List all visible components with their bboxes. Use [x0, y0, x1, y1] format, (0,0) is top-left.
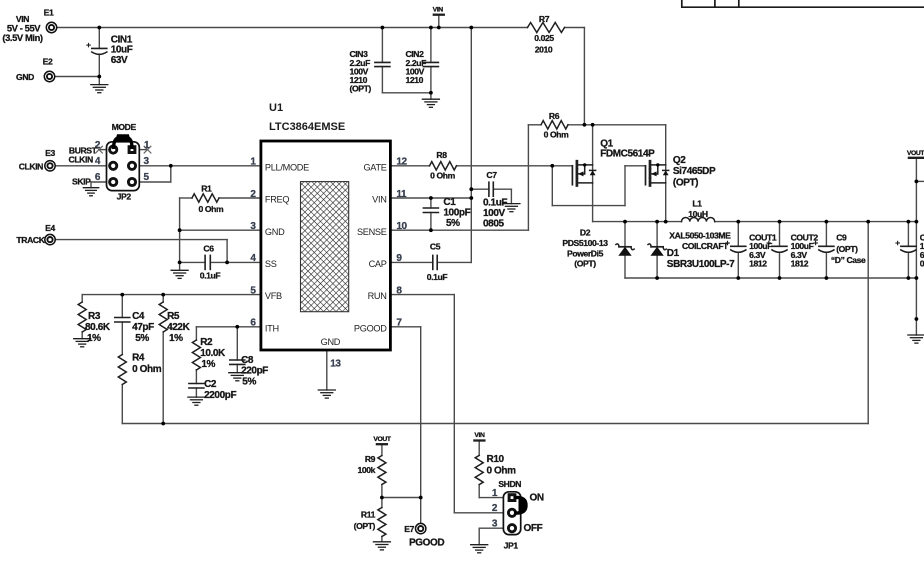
svg-text:220pF: 220pF — [241, 365, 268, 376]
svg-text:“D” Case: “D” Case — [831, 255, 866, 265]
svg-text:JP2: JP2 — [117, 192, 132, 202]
svg-text:0805: 0805 — [483, 219, 504, 230]
svg-text:C8: C8 — [241, 355, 254, 366]
svg-text:9: 9 — [396, 253, 402, 264]
svg-text:0 Ohm: 0 Ohm — [544, 130, 570, 140]
svg-text:LTC3864EMSE: LTC3864EMSE — [269, 121, 345, 133]
svg-text:R9: R9 — [365, 454, 376, 464]
svg-text:GND: GND — [265, 227, 285, 237]
svg-text:1%: 1% — [169, 333, 183, 344]
svg-text:R1: R1 — [201, 184, 212, 194]
svg-text:C9: C9 — [836, 232, 847, 242]
svg-text:D2: D2 — [580, 228, 591, 238]
svg-text:XAL5050-103ME: XAL5050-103ME — [669, 231, 731, 241]
svg-text:MODE: MODE — [112, 122, 137, 132]
svg-text:12: 12 — [396, 157, 407, 168]
svg-text:0.025: 0.025 — [534, 33, 554, 43]
svg-text:6: 6 — [95, 172, 101, 183]
svg-text:R11: R11 — [361, 510, 376, 520]
svg-text:(OPT): (OPT) — [574, 259, 596, 269]
svg-text:(3.5V Min): (3.5V Min) — [2, 32, 43, 43]
svg-text:CLKIN: CLKIN — [69, 155, 93, 165]
svg-text:E4: E4 — [45, 223, 55, 233]
svg-text:3: 3 — [492, 518, 498, 529]
svg-text:C6: C6 — [203, 244, 214, 254]
svg-text:E1: E1 — [44, 8, 54, 18]
svg-text:ON: ON — [530, 493, 544, 504]
svg-text:E2: E2 — [43, 57, 53, 67]
svg-text:FDMC5614P: FDMC5614P — [600, 148, 655, 159]
svg-text:FREQ: FREQ — [265, 195, 289, 205]
svg-text:C2: C2 — [204, 379, 217, 390]
svg-text:COILCRAFT: COILCRAFT — [682, 241, 729, 251]
svg-text:R2: R2 — [200, 337, 213, 348]
svg-text:JP1: JP1 — [504, 541, 519, 551]
svg-text:4: 4 — [250, 253, 256, 264]
svg-text:1%: 1% — [87, 333, 101, 344]
svg-text:VOUT: VOUT — [373, 436, 392, 443]
svg-text:1%: 1% — [201, 359, 215, 370]
svg-text:ITH: ITH — [265, 323, 279, 333]
svg-text:100V: 100V — [483, 208, 505, 219]
svg-text:PGOOD: PGOOD — [409, 538, 444, 549]
svg-text:8: 8 — [396, 285, 402, 296]
svg-text:0.1uF: 0.1uF — [427, 272, 448, 282]
svg-text:Si7465DP: Si7465DP — [673, 166, 716, 177]
svg-text:C5: C5 — [430, 242, 441, 252]
svg-text:SS: SS — [265, 259, 277, 269]
svg-text:4: 4 — [95, 156, 101, 167]
svg-text:GND: GND — [321, 337, 341, 347]
svg-text:100k: 100k — [357, 465, 375, 475]
svg-text:47pF: 47pF — [132, 322, 154, 333]
svg-text:1: 1 — [144, 140, 150, 151]
svg-text:L1: L1 — [692, 199, 702, 209]
svg-text:0 Ohm: 0 Ohm — [487, 466, 517, 477]
svg-text:0 Ohm: 0 Ohm — [199, 204, 225, 214]
svg-text:PDS5100-13: PDS5100-13 — [562, 238, 608, 248]
svg-text:11: 11 — [396, 189, 407, 200]
svg-text:OFF: OFF — [524, 523, 543, 534]
svg-text:CAP: CAP — [369, 259, 387, 269]
svg-text:VOUT: VOUT — [907, 150, 924, 157]
svg-text:10uH: 10uH — [688, 209, 708, 219]
svg-text:0.1uF: 0.1uF — [200, 271, 221, 281]
svg-text:0 Ohm: 0 Ohm — [132, 364, 162, 375]
svg-text:(OPT): (OPT) — [836, 244, 858, 254]
svg-text:R3: R3 — [88, 311, 101, 322]
svg-text:1: 1 — [492, 488, 498, 499]
svg-text:6: 6 — [250, 318, 256, 329]
svg-text:3: 3 — [144, 156, 150, 167]
svg-text:10: 10 — [396, 221, 407, 232]
svg-text:R4: R4 — [132, 353, 145, 364]
svg-text:(OPT): (OPT) — [673, 177, 698, 188]
svg-text:(OPT): (OPT) — [350, 84, 372, 94]
svg-text:TRACK: TRACK — [16, 235, 45, 245]
svg-text:5: 5 — [144, 172, 150, 183]
svg-text:2: 2 — [250, 189, 256, 200]
svg-text:2200pF: 2200pF — [204, 390, 236, 401]
svg-text:SBR3U100LP-7: SBR3U100LP-7 — [667, 259, 735, 270]
svg-text:C7: C7 — [486, 170, 497, 180]
svg-text:7: 7 — [396, 318, 402, 329]
svg-text:R6: R6 — [549, 111, 560, 121]
svg-text:2: 2 — [492, 503, 498, 514]
svg-text:R5: R5 — [167, 311, 180, 322]
svg-text:1210: 1210 — [406, 75, 424, 85]
svg-text:SHDN: SHDN — [498, 479, 521, 489]
svg-text:10uF: 10uF — [111, 45, 133, 56]
svg-text:0805: 0805 — [920, 259, 924, 269]
svg-text:VIN: VIN — [433, 7, 444, 14]
svg-text:1812: 1812 — [749, 259, 767, 269]
svg-text:5%: 5% — [242, 376, 256, 387]
svg-text:R7: R7 — [539, 14, 550, 24]
svg-text:5: 5 — [250, 285, 256, 296]
svg-text:VIN: VIN — [474, 432, 485, 439]
svg-text:PGOOD: PGOOD — [354, 323, 387, 333]
svg-text:0 Ohm: 0 Ohm — [430, 170, 456, 180]
svg-text:E7: E7 — [404, 524, 414, 534]
svg-text:D1: D1 — [667, 248, 680, 259]
svg-text:PowerDi5: PowerDi5 — [567, 248, 604, 258]
svg-text:RUN: RUN — [368, 291, 387, 301]
svg-text:63V: 63V — [111, 55, 128, 66]
svg-text:1: 1 — [250, 157, 256, 168]
svg-text:422K: 422K — [167, 322, 190, 333]
svg-text:5%: 5% — [135, 333, 149, 344]
svg-text:2010: 2010 — [535, 45, 553, 55]
svg-text:0.1uF: 0.1uF — [483, 198, 507, 209]
svg-text:GATE: GATE — [363, 162, 386, 172]
svg-text:SKIP: SKIP — [72, 177, 91, 187]
svg-text:(OPT): (OPT) — [354, 521, 376, 531]
svg-text:1812: 1812 — [791, 259, 809, 269]
svg-text:U1: U1 — [269, 102, 283, 114]
svg-text:VFB: VFB — [265, 291, 282, 301]
svg-text:CLKIN: CLKIN — [19, 161, 43, 171]
svg-text:5%: 5% — [446, 218, 460, 229]
svg-text:100pF: 100pF — [443, 208, 470, 219]
svg-text:GND: GND — [16, 72, 34, 82]
svg-text:VIN: VIN — [372, 195, 386, 205]
svg-text:C4: C4 — [132, 311, 145, 322]
svg-text:Q2: Q2 — [673, 155, 686, 166]
svg-text:E3: E3 — [45, 148, 55, 158]
svg-text:CIN1: CIN1 — [111, 34, 133, 45]
svg-text:10.0K: 10.0K — [200, 348, 226, 359]
svg-text:R8: R8 — [436, 150, 447, 160]
svg-text:C1: C1 — [443, 197, 456, 208]
svg-text:13: 13 — [330, 358, 341, 369]
svg-text:80.6K: 80.6K — [85, 322, 111, 333]
svg-text:3: 3 — [250, 221, 256, 232]
svg-text:R10: R10 — [487, 454, 505, 465]
svg-text:SENSE: SENSE — [357, 227, 387, 237]
svg-text:PLL/MODE: PLL/MODE — [265, 162, 309, 172]
